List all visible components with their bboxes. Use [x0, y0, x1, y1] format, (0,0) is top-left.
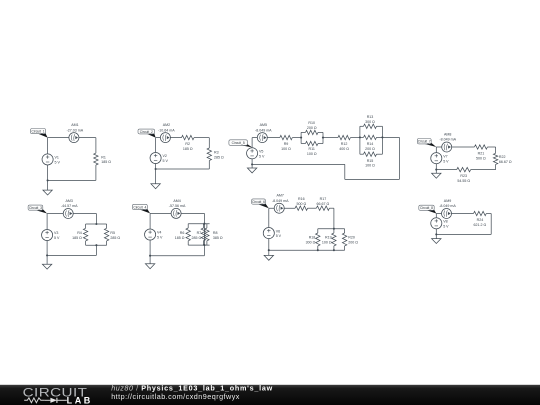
ground — [151, 184, 160, 189]
svg-text:R4: R4 — [77, 231, 82, 235]
label R12 value — [339, 142, 349, 151]
wire — [377, 153, 383, 155]
wire — [202, 224, 204, 228]
wire — [252, 137, 280, 139]
resistor R21 — [474, 145, 487, 149]
label AM7 value — [272, 194, 289, 203]
label R6 value — [175, 231, 185, 240]
wire — [435, 170, 437, 174]
wire — [333, 246, 335, 250]
svg-text:AM4: AM4 — [173, 199, 180, 203]
junction — [149, 255, 151, 257]
junction — [381, 136, 383, 138]
svg-text:-8.049 mA: -8.049 mA — [439, 138, 456, 142]
wire — [323, 137, 338, 139]
ammeter AM7 — [274, 203, 284, 213]
label R21 value — [476, 152, 486, 161]
svg-text:Circuit_4: Circuit_4 — [133, 205, 146, 209]
label R19 value — [322, 236, 332, 245]
wire — [48, 137, 96, 139]
label R2 value — [183, 142, 193, 151]
label V7 value — [443, 154, 449, 163]
wire — [194, 137, 209, 139]
svg-text:V2: V2 — [163, 154, 167, 158]
svg-text:66.67 Ω: 66.67 Ω — [499, 160, 512, 164]
wire — [435, 214, 437, 235]
label R24 value — [474, 218, 487, 227]
junction — [435, 169, 437, 171]
wire — [359, 126, 361, 154]
wire — [377, 125, 383, 127]
voltage source V5 — [247, 148, 258, 159]
label R13 value — [365, 115, 375, 124]
svg-text:AM5: AM5 — [260, 123, 267, 127]
svg-text:V7: V7 — [443, 154, 447, 158]
svg-text:V6: V6 — [276, 229, 280, 233]
svg-text:AM8: AM8 — [444, 132, 451, 136]
node label Circuit_2 — [138, 129, 156, 138]
label V6 value — [276, 229, 282, 238]
wire — [206, 224, 208, 228]
voltage source V8 — [431, 218, 442, 229]
resistor R16 — [295, 206, 308, 210]
wire — [301, 143, 305, 145]
svg-text:285 Ω: 285 Ω — [110, 236, 120, 240]
svg-text:R13: R13 — [367, 115, 374, 119]
wire — [300, 132, 302, 143]
ground — [264, 255, 273, 260]
wire — [47, 254, 96, 256]
node label Circuit_3 — [28, 205, 47, 213]
wire — [495, 147, 497, 153]
label R9 value — [281, 142, 291, 151]
wire — [436, 233, 491, 235]
resistor R9 — [280, 135, 293, 139]
label R20 value — [348, 236, 358, 245]
ground — [432, 173, 441, 178]
wire — [95, 165, 97, 180]
junction — [322, 137, 324, 139]
wire — [398, 137, 400, 179]
wire — [95, 245, 97, 255]
svg-text:R12: R12 — [341, 142, 348, 146]
voltage source V2 — [150, 152, 161, 163]
wire — [187, 224, 189, 228]
label R7 value — [192, 231, 202, 240]
resistor R24 — [474, 211, 487, 215]
svg-text:R16: R16 — [298, 197, 305, 201]
wire — [47, 213, 96, 215]
label AM4 value — [169, 199, 186, 208]
wire — [47, 180, 49, 190]
label R1 value — [101, 155, 111, 164]
svg-text:66.67 Ω: 66.67 Ω — [317, 202, 330, 206]
voltage source V6 — [263, 228, 274, 239]
label R18 value — [306, 236, 316, 245]
wire — [203, 213, 205, 255]
ammeter AM9 — [442, 209, 452, 219]
wire — [106, 224, 108, 228]
wire — [95, 138, 97, 154]
wire — [360, 136, 364, 138]
node label Circuit_6 — [252, 199, 269, 208]
wire — [156, 137, 182, 139]
svg-text:285 Ω: 285 Ω — [192, 236, 202, 240]
svg-text:100 Ω: 100 Ω — [281, 147, 291, 151]
resistor R19 — [332, 233, 336, 246]
label R8 value — [213, 231, 223, 240]
svg-text:100 Ω: 100 Ω — [307, 152, 317, 156]
resistor R5 — [104, 228, 108, 241]
wire — [155, 138, 157, 169]
wire — [251, 164, 253, 168]
logo wire to diode — [45, 399, 51, 401]
svg-text:R20: R20 — [348, 236, 355, 240]
svg-text:AM9: AM9 — [444, 199, 451, 203]
resistor R6 — [186, 228, 190, 241]
wire — [333, 229, 335, 233]
wire — [318, 249, 345, 251]
svg-text:200 Ω: 200 Ω — [307, 126, 317, 130]
wire — [85, 241, 87, 245]
ground — [432, 239, 441, 244]
junction — [333, 249, 335, 251]
label R11 value — [307, 147, 317, 156]
junction — [359, 136, 361, 138]
svg-text:R6: R6 — [180, 231, 185, 235]
wire — [322, 132, 324, 143]
svg-text:R2: R2 — [185, 142, 190, 146]
label V1 value — [55, 156, 61, 165]
svg-text:100 Ω: 100 Ω — [322, 241, 332, 245]
svg-text:R15: R15 — [367, 159, 374, 163]
wire — [268, 250, 270, 255]
node label Circuit_1 — [31, 129, 48, 138]
svg-text:R5: R5 — [110, 231, 115, 235]
wire — [208, 138, 210, 148]
label R23 value — [457, 174, 470, 183]
ammeter AM2 — [160, 133, 170, 143]
label AM2 value — [158, 123, 175, 132]
svg-text:R22: R22 — [499, 155, 506, 159]
label V5 value — [259, 150, 265, 159]
ground — [247, 168, 256, 173]
svg-text:V8: V8 — [443, 220, 447, 224]
wire — [46, 255, 48, 264]
wire — [269, 249, 318, 251]
svg-text:5 V: 5 V — [443, 224, 449, 228]
wire — [268, 208, 270, 250]
svg-text:R7: R7 — [197, 231, 202, 235]
svg-text:54.55 Ω: 54.55 Ω — [457, 179, 470, 183]
junction — [203, 223, 205, 225]
junction — [47, 179, 49, 181]
svg-text:V3: V3 — [54, 231, 58, 235]
ammeter AM5 — [257, 133, 267, 143]
footer bar — [0, 385, 540, 405]
svg-text:185 Ω: 185 Ω — [183, 147, 193, 151]
resistor R1 — [94, 153, 98, 165]
wire — [252, 163, 345, 165]
svg-text:R1: R1 — [101, 155, 106, 159]
junction — [317, 249, 319, 251]
svg-text:5 V: 5 V — [163, 159, 169, 163]
label AM8 value — [439, 132, 456, 141]
wire — [495, 164, 497, 169]
wire — [308, 207, 317, 209]
resistor R12 — [338, 135, 351, 139]
node label Circuit_7 — [417, 139, 436, 148]
svg-text:621.2 Ω: 621.2 Ω — [474, 223, 487, 227]
svg-text:185 Ω: 185 Ω — [72, 236, 82, 240]
svg-text:5 V: 5 V — [157, 236, 163, 240]
wire — [47, 138, 49, 181]
wire — [344, 229, 346, 233]
svg-text:R11: R11 — [309, 147, 315, 151]
wire — [86, 223, 107, 225]
svg-text:http://circuitlab.com/cxdn9eqr: http://circuitlab.com/cxdn9eqrgfwyx — [111, 392, 240, 401]
wire — [150, 255, 204, 257]
label AM3 value — [61, 199, 78, 208]
svg-text:5 V: 5 V — [443, 159, 449, 163]
resistor R3 — [207, 148, 211, 161]
wire — [149, 256, 151, 264]
svg-text:-8.049 mA: -8.049 mA — [255, 128, 272, 132]
svg-text:500 Ω: 500 Ω — [476, 157, 486, 161]
svg-text:Circuit_1: Circuit_1 — [32, 129, 45, 133]
resistor R2 — [182, 135, 195, 139]
svg-text:R9: R9 — [284, 142, 289, 146]
junction — [435, 233, 437, 235]
resistor R23 — [457, 167, 471, 171]
resistor R4 — [83, 228, 87, 241]
svg-text:V5: V5 — [259, 150, 263, 154]
svg-text:R23: R23 — [460, 174, 467, 178]
wire — [471, 169, 496, 171]
ground — [145, 264, 154, 269]
junction — [95, 244, 97, 246]
junction — [46, 254, 48, 256]
svg-text:Circuit_7: Circuit_7 — [418, 140, 431, 144]
label AM9 value — [439, 199, 456, 208]
resistor R14 — [364, 135, 377, 139]
svg-text:R24: R24 — [477, 218, 484, 222]
svg-text:R19: R19 — [325, 236, 332, 240]
wire — [292, 137, 301, 139]
wire — [486, 213, 491, 215]
logo diode — [50, 398, 57, 403]
svg-text:-27.03 mA: -27.03 mA — [67, 128, 84, 132]
svg-text:200 Ω: 200 Ω — [348, 241, 358, 245]
svg-text:285 Ω: 285 Ω — [214, 156, 224, 160]
node label Circuit_5 — [229, 140, 252, 148]
svg-text:185 Ω: 185 Ω — [175, 236, 185, 240]
svg-text:AM3: AM3 — [66, 199, 73, 203]
label AM5 value — [255, 123, 272, 132]
svg-text:400 Ω: 400 Ω — [339, 147, 349, 151]
wire — [269, 207, 295, 209]
svg-text:AM2: AM2 — [163, 123, 170, 127]
resistor R13 — [364, 124, 377, 128]
svg-text:Circuit_3: Circuit_3 — [29, 206, 42, 210]
svg-text:-8.049 mA: -8.049 mA — [272, 199, 289, 203]
wire — [381, 126, 383, 154]
wire — [360, 125, 364, 127]
wire — [317, 246, 319, 250]
ground — [43, 190, 52, 195]
wire — [85, 224, 87, 228]
voltage source V3 — [42, 229, 53, 240]
resistor R11 — [306, 141, 319, 145]
wire — [318, 228, 345, 230]
svg-text:385 Ω: 385 Ω — [213, 236, 223, 240]
node label Circuit_4 — [132, 204, 150, 213]
svg-text:Circuit_5: Circuit_5 — [232, 141, 245, 145]
svg-text:-8.049 mA: -8.049 mA — [439, 204, 456, 208]
wire — [436, 213, 473, 215]
wire — [187, 241, 189, 245]
svg-text:300 Ω: 300 Ω — [306, 241, 316, 245]
wire — [360, 153, 364, 155]
wire — [318, 143, 323, 145]
wire — [95, 214, 97, 225]
wire — [188, 244, 209, 246]
wire — [188, 223, 209, 225]
svg-text:V4: V4 — [157, 231, 161, 235]
junction — [251, 163, 253, 165]
wire — [251, 138, 253, 165]
wire — [435, 234, 437, 238]
resistor R15 — [364, 152, 377, 156]
wire — [333, 208, 335, 229]
svg-text:185 Ω: 185 Ω — [101, 160, 111, 164]
svg-text:200 Ω: 200 Ω — [365, 147, 375, 151]
voltage source V7 — [431, 153, 442, 164]
junction — [300, 137, 302, 139]
label R14 value — [365, 142, 375, 151]
svg-text:5 V: 5 V — [276, 234, 282, 238]
svg-text:Circuit_8: Circuit_8 — [420, 206, 433, 210]
svg-text:500 Ω: 500 Ω — [296, 202, 306, 206]
logo wire after diode — [57, 399, 67, 401]
svg-text:-44.57 mA: -44.57 mA — [61, 204, 78, 208]
junction — [155, 168, 157, 170]
wire — [106, 241, 108, 245]
svg-text:R17: R17 — [320, 197, 327, 201]
label V8 value — [443, 220, 449, 229]
svg-text:-10.64 mA: -10.64 mA — [158, 128, 175, 132]
wire — [155, 169, 157, 184]
svg-text:R3: R3 — [214, 151, 219, 155]
svg-text:LAB: LAB — [67, 395, 93, 405]
svg-text:5 V: 5 V — [259, 154, 265, 158]
label V2 value — [163, 154, 169, 163]
wire — [345, 178, 400, 180]
wire — [487, 146, 495, 148]
label V3 value — [54, 231, 60, 240]
svg-text:Circuit_6: Circuit_6 — [252, 200, 265, 204]
ammeter AM8 — [442, 142, 452, 152]
svg-text:5 V: 5 V — [54, 236, 60, 240]
svg-text:100 Ω: 100 Ω — [365, 164, 375, 168]
wire — [86, 244, 107, 246]
wire — [149, 213, 151, 255]
wire — [490, 214, 492, 235]
label R22 value — [499, 155, 512, 164]
ammeter AM3 — [63, 209, 73, 219]
wire — [344, 164, 346, 179]
resistor R7 — [201, 228, 205, 241]
svg-text:R14: R14 — [367, 142, 374, 146]
junction — [268, 249, 270, 251]
svg-text:R8: R8 — [213, 231, 218, 235]
resistor R8 — [205, 228, 209, 241]
logo resistor zigzag — [24, 398, 44, 403]
resistor R10 — [306, 130, 319, 134]
resistor R18 — [316, 233, 320, 246]
wire — [329, 207, 334, 209]
wire — [208, 161, 210, 169]
ammeter AM4 — [171, 208, 181, 218]
wire — [156, 168, 210, 170]
voltage source V4 — [145, 229, 156, 240]
svg-text:R18: R18 — [309, 236, 316, 240]
label R10 value — [307, 121, 317, 130]
label V4 value — [157, 231, 163, 240]
svg-text:AM1: AM1 — [71, 123, 78, 127]
junction — [203, 244, 205, 246]
wire — [382, 136, 399, 138]
resistor R17 — [316, 206, 329, 210]
label R4 value — [72, 231, 82, 240]
label R17 value — [317, 197, 330, 206]
svg-text:5 V: 5 V — [55, 161, 61, 165]
node label Circuit_8 — [419, 205, 437, 213]
junction — [95, 223, 97, 225]
wire — [350, 137, 360, 139]
svg-text:-57.56 mA: -57.56 mA — [169, 204, 186, 208]
wire — [150, 212, 204, 214]
wire — [301, 131, 305, 133]
svg-text:R10: R10 — [308, 121, 315, 125]
wire — [435, 147, 437, 170]
voltage source V1 — [42, 154, 53, 165]
wire — [202, 241, 204, 245]
wire — [436, 146, 474, 148]
resistor R20 — [342, 233, 346, 246]
wire — [318, 131, 323, 133]
svg-text:R21: R21 — [478, 152, 485, 156]
ground — [42, 264, 51, 269]
wire — [206, 241, 208, 245]
wire — [317, 229, 319, 233]
label R5 value — [110, 231, 120, 240]
svg-text:V1: V1 — [55, 156, 59, 160]
label R16 value — [296, 197, 306, 206]
resistor R22 — [493, 153, 497, 164]
svg-text:300 Ω: 300 Ω — [365, 120, 375, 124]
svg-text:AM7: AM7 — [277, 194, 284, 198]
ammeter AM1 — [69, 133, 79, 143]
wire — [48, 179, 96, 181]
junction — [333, 228, 335, 230]
wire — [46, 214, 48, 256]
wire — [344, 246, 346, 250]
label AM1 value — [67, 123, 84, 132]
svg-text:Circuit_2: Circuit_2 — [140, 130, 153, 134]
wire — [377, 136, 383, 138]
label R3 value — [214, 151, 224, 160]
